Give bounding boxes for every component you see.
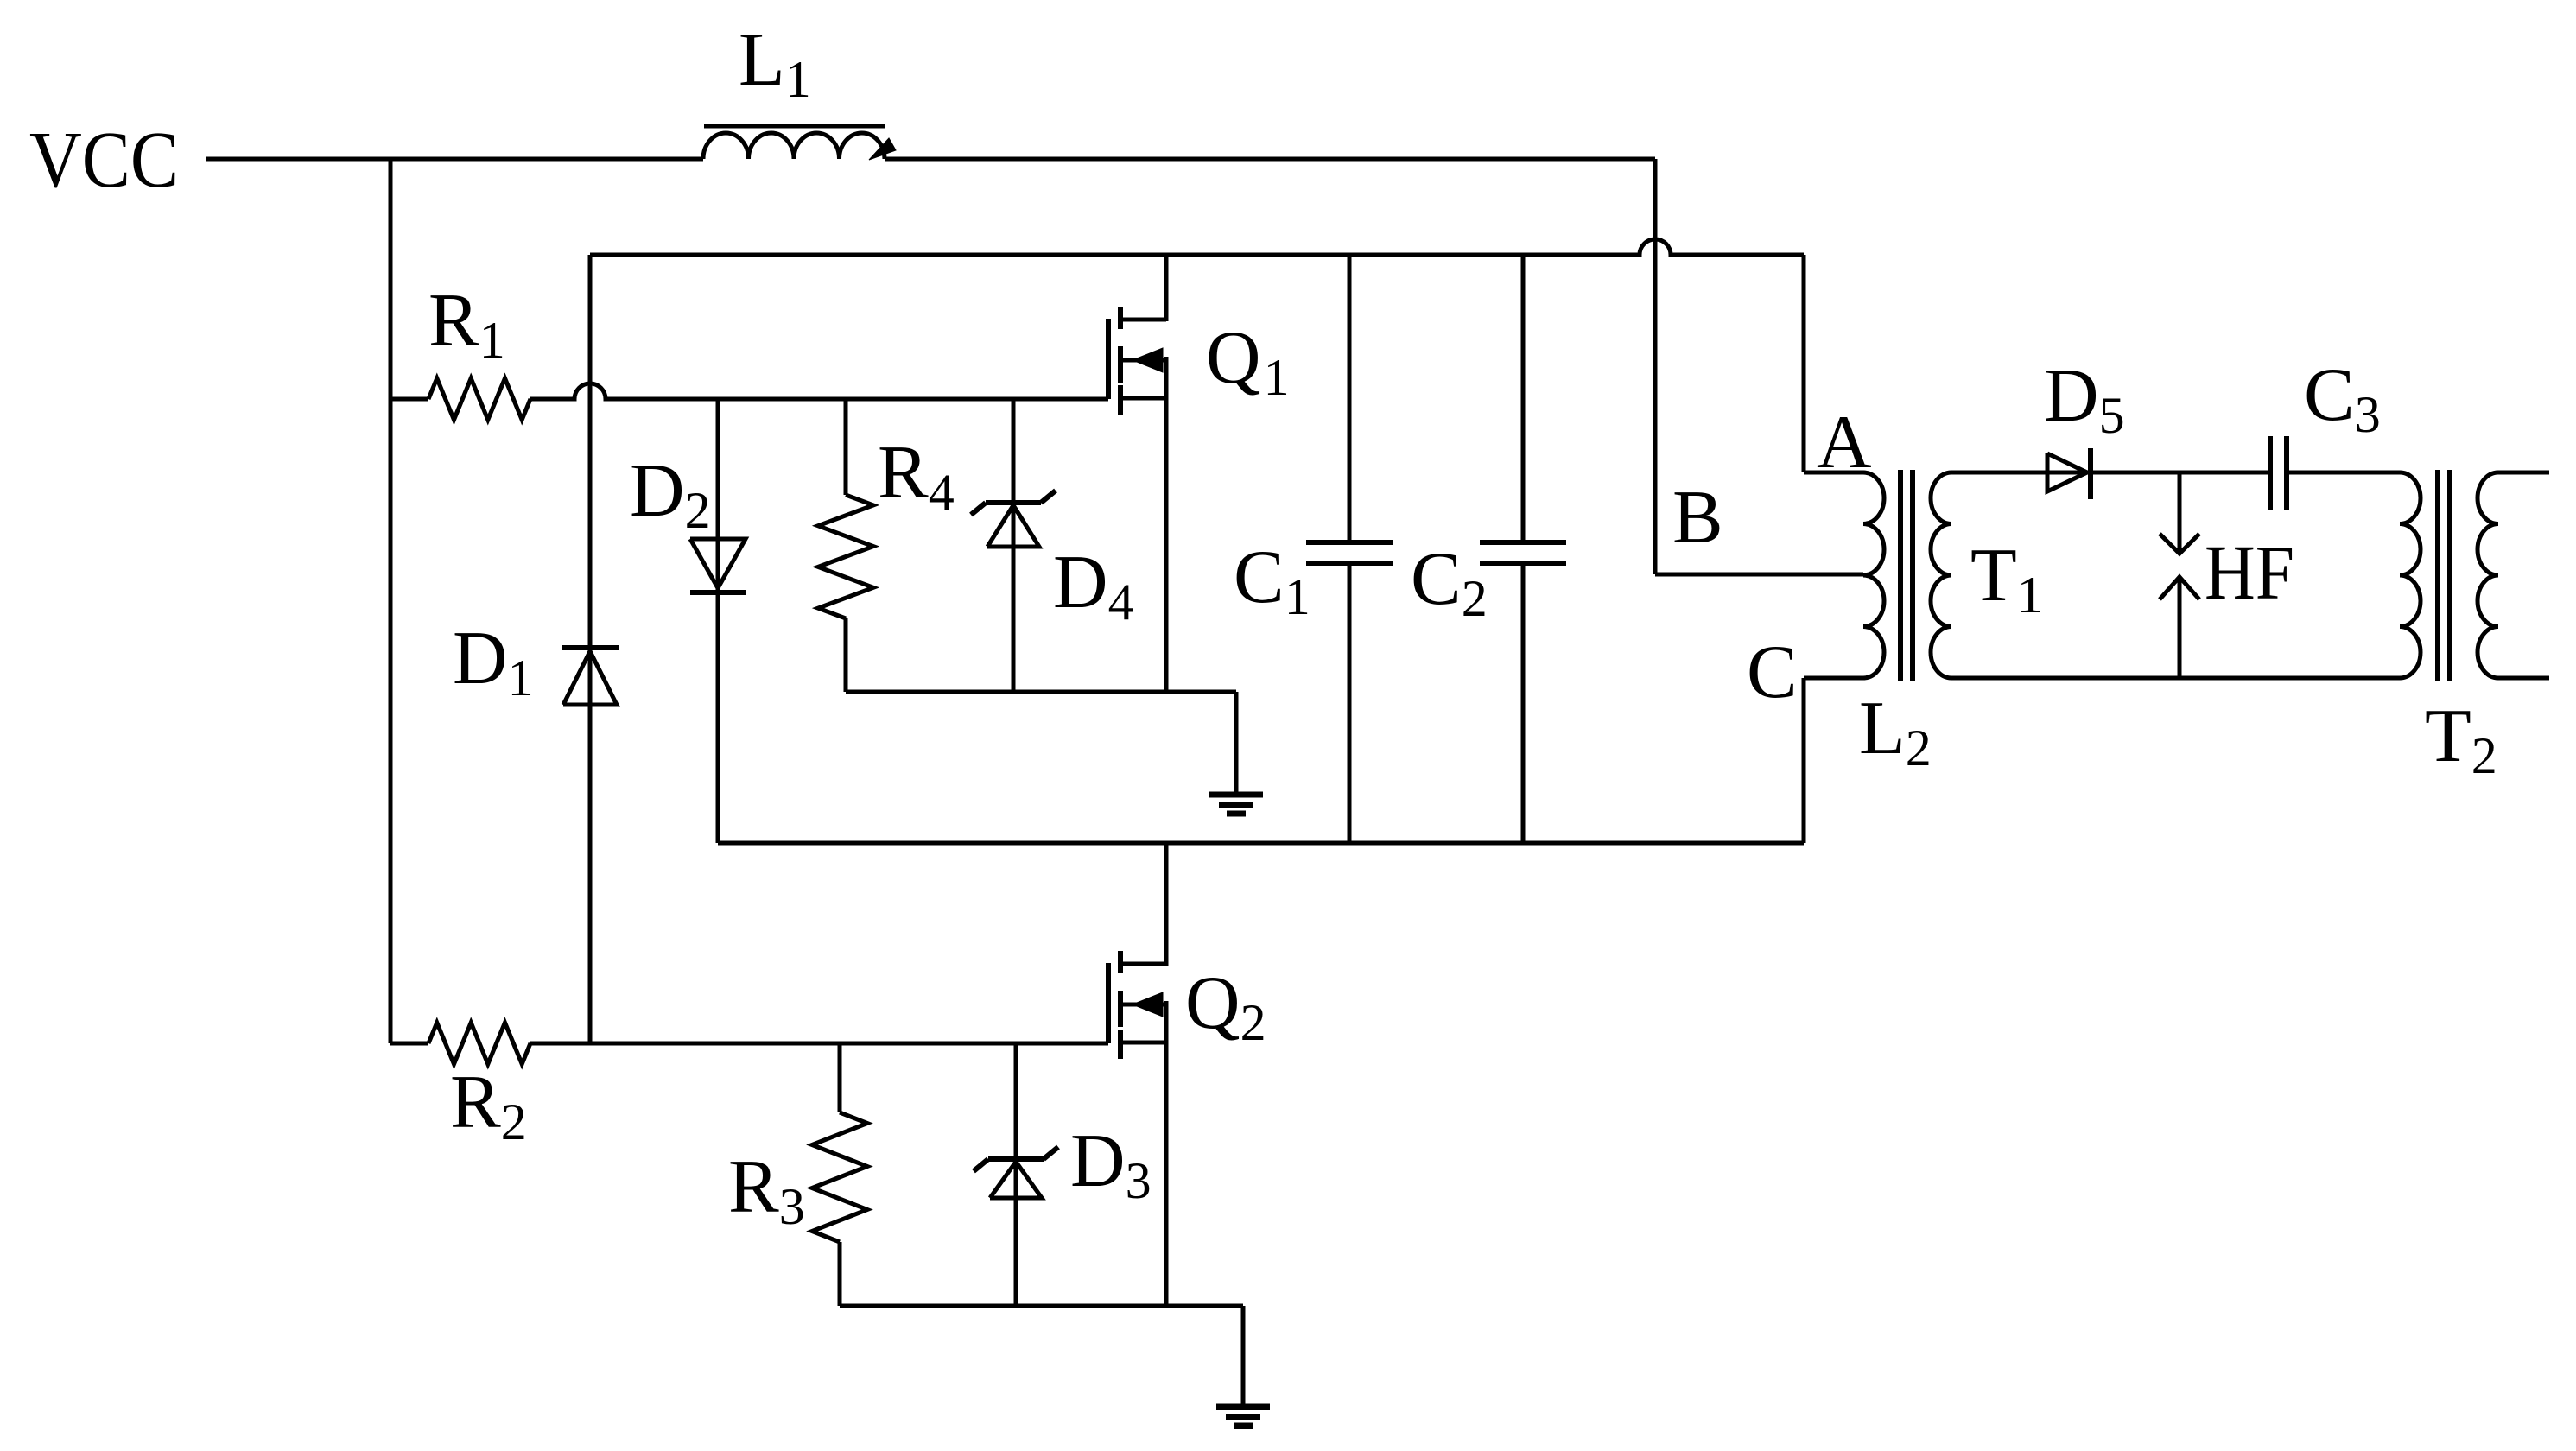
- label D5: [2044, 354, 2125, 444]
- wire C3 to T2: [2287, 471, 2400, 475]
- inductor L2 primary winding: [1863, 472, 1884, 678]
- wire R3 bottom: [838, 1242, 842, 1306]
- capacitor C1: [1306, 542, 1393, 563]
- svg-text:C: C: [1747, 630, 1798, 714]
- wire Q1 source down: [1164, 357, 1169, 692]
- wire C tap corner: [1804, 678, 1863, 843]
- diode D1: [562, 648, 619, 705]
- svg-text:HF: HF: [2205, 530, 2294, 616]
- ground at Q1 source: [1209, 795, 1263, 814]
- label Q2: [1185, 961, 1266, 1051]
- wire corner down to B tap: [1655, 159, 1863, 574]
- svg-text:VCC: VCC: [29, 116, 179, 205]
- label R4: [878, 431, 955, 521]
- wire D3 top: [1014, 1043, 1018, 1198]
- wire C1 top: [1348, 255, 1352, 542]
- resistor R2: [428, 1023, 530, 1064]
- node VCC label: [29, 116, 179, 205]
- label R3: [728, 1145, 805, 1235]
- transistor Q1: [1108, 307, 1166, 415]
- transformer T2 secondary winding: [2478, 472, 2498, 678]
- label HF: [2205, 530, 2294, 616]
- wire bus corner down to A tap: [1804, 255, 1863, 472]
- wire R2 stub: [390, 1042, 428, 1046]
- label R1: [428, 279, 505, 369]
- inductor L1: [703, 126, 896, 160]
- diode D5: [2047, 448, 2091, 499]
- wire C2 bottom: [1521, 563, 1526, 843]
- wire D1 to Q2 gate rail: [588, 648, 593, 1043]
- label L1: [739, 18, 811, 108]
- wire R1 to Q1 gate with hop: [530, 383, 1108, 399]
- junction wire down from VCC rail: [389, 159, 393, 1043]
- node C label: [1747, 630, 1798, 714]
- label C2: [1411, 537, 1488, 627]
- wire R1 stub: [390, 397, 428, 402]
- wire D4 top: [1012, 399, 1016, 547]
- wire T1 top lead: [1951, 471, 2091, 475]
- resistor R4: [818, 495, 873, 618]
- wire Q1 drain: [1164, 255, 1169, 321]
- diode D2: [690, 539, 746, 592]
- wire D4 bottom: [1012, 503, 1016, 692]
- spark gap HF: [2160, 472, 2199, 678]
- label C3: [2304, 353, 2381, 443]
- transistor Q2: [1108, 951, 1166, 1059]
- label D3: [1070, 1119, 1152, 1209]
- label D2: [630, 449, 711, 539]
- wire L1 to corner: [885, 157, 1655, 162]
- capacitor C2: [1480, 542, 1566, 563]
- wire R2 to Q2 gate: [530, 1042, 1108, 1046]
- wire VCC to L1: [206, 157, 703, 162]
- wire T2 secondary bottom stub: [2498, 676, 2549, 681]
- label T2: [2425, 694, 2497, 784]
- wire bus2-left down to D1: [588, 255, 593, 705]
- label Q1: [1206, 316, 1290, 406]
- wire D2 top: [716, 399, 720, 592]
- wire Q2 source down: [1164, 1001, 1169, 1306]
- label D1: [453, 617, 534, 706]
- zener diode D3: [974, 1147, 1058, 1198]
- label C1: [1234, 535, 1310, 625]
- node A label: [1817, 401, 1872, 485]
- label D4: [1053, 541, 1134, 630]
- wire Q1 drain bus: [590, 239, 1804, 255]
- node B label: [1672, 476, 1723, 560]
- wire R4 top: [844, 399, 848, 495]
- wire Q2 source bus: [840, 1306, 1243, 1407]
- wire Q1 source bus: [846, 692, 1236, 795]
- label R2: [450, 1061, 527, 1150]
- wire D2 bottom to bus: [716, 539, 720, 843]
- resistor R3: [812, 1112, 867, 1242]
- capacitor C3: [2270, 436, 2287, 510]
- label L2: [1859, 687, 1932, 776]
- wire R3 top: [838, 1043, 842, 1112]
- svg-text:B: B: [1672, 476, 1723, 560]
- transformer T1 secondary winding: [1931, 472, 1951, 678]
- wire T2 secondary top stub: [2498, 471, 2549, 475]
- transformer T2 core: [2438, 470, 2450, 681]
- wire T1 bottom lead: [1951, 676, 2400, 681]
- wire C1 bottom: [1348, 563, 1352, 843]
- label T1: [1970, 534, 2043, 624]
- transformer T2 primary winding: [2400, 472, 2421, 678]
- zener diode D4: [971, 491, 1056, 547]
- ground at Q2 source: [1216, 1407, 1270, 1426]
- wire D5 to C3: [2091, 471, 2270, 475]
- transformer T1 core: [1900, 470, 1913, 681]
- wire Q2 drain: [1164, 843, 1169, 966]
- wire D3 bottom: [1014, 1159, 1018, 1306]
- wire C2 top: [1521, 255, 1526, 542]
- wire Q2 drain bus: [718, 841, 1804, 846]
- wire R4 bottom: [844, 618, 848, 692]
- resistor R1: [428, 378, 530, 420]
